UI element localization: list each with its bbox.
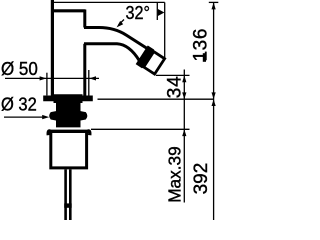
mounting surface extension line xyxy=(98,98,215,100)
svg-text:32°: 32° xyxy=(126,3,151,23)
dia32 leader line xyxy=(4,116,44,118)
arrow 392 top xyxy=(212,99,216,106)
shank nub right xyxy=(80,111,87,121)
deck bottom extension line xyxy=(91,128,190,130)
spout black band xyxy=(137,46,154,67)
dia50 arrow right xyxy=(89,76,96,80)
dia50 extension line left xyxy=(46,73,48,96)
supply tube joint xyxy=(64,203,72,207)
mounting nut xyxy=(48,131,90,135)
spout bottom outline xyxy=(84,44,140,61)
svg-text:34: 34 xyxy=(164,76,185,99)
dim line 136/392 xyxy=(213,2,215,220)
arrow 136 top xyxy=(212,2,216,9)
angle leader tail xyxy=(119,20,124,25)
faucet body left edge xyxy=(51,0,54,96)
faucet body right edge lower xyxy=(83,44,86,96)
arrow 34 top xyxy=(182,75,186,82)
top tick at dim line xyxy=(209,1,219,3)
arrow 34 bottom xyxy=(182,92,186,99)
dia50 extension line right xyxy=(88,70,90,96)
dia32 arrow xyxy=(42,115,49,119)
faucet body right edge upper xyxy=(83,10,86,28)
supply tube xyxy=(66,170,71,221)
base flange center xyxy=(54,94,83,103)
spout outlet extension line xyxy=(156,74,190,76)
dia50 arrow left xyxy=(40,76,47,80)
faucet body top edge xyxy=(51,9,85,12)
svg-text:Ø 32: Ø 32 xyxy=(1,93,37,114)
dim line 34/max39 xyxy=(183,70,185,203)
spout end cap xyxy=(144,52,165,75)
svg-text:Max.39: Max.39 xyxy=(165,146,185,203)
svg-text:392: 392 xyxy=(191,163,212,195)
lower cylinder xyxy=(51,133,87,168)
arrow max39 xyxy=(182,129,186,136)
dia50 dimension line xyxy=(5,77,99,79)
angle ref line A xyxy=(156,2,158,20)
svg-text:Ø 50: Ø 50 xyxy=(1,58,38,79)
base flange xyxy=(43,96,93,102)
svg-text:136: 136 xyxy=(190,28,211,62)
top extension line xyxy=(54,1,165,3)
angle arrow lower-left xyxy=(117,21,124,28)
shank nub left xyxy=(49,111,56,121)
threaded shank xyxy=(56,101,81,127)
label 136 digit-1 foot serif xyxy=(203,53,206,62)
arrow 136 bottom xyxy=(212,92,216,99)
spout top outline xyxy=(84,28,148,50)
angle arrow right xyxy=(158,9,165,16)
angle ref line B xyxy=(164,2,166,58)
